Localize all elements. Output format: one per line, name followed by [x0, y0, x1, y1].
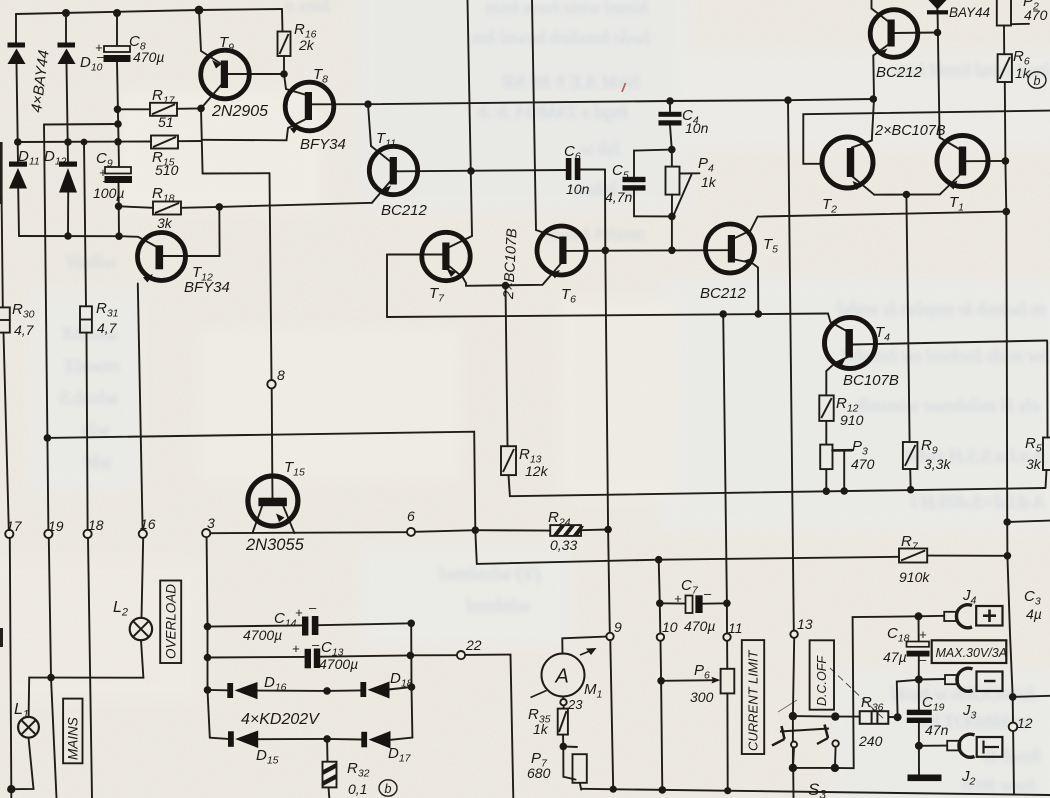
svg-text:–: –: [308, 600, 317, 615]
svg-text:+: +: [292, 641, 300, 656]
svg-text:BFY34: BFY34: [300, 136, 346, 153]
svg-text:10: 10: [662, 619, 678, 635]
svg-text:lngd s TAMOA .b .b: lngd s TAMOA .b .b: [478, 102, 628, 123]
svg-text:BC212: BC212: [700, 285, 747, 302]
svg-text:BC212: BC212: [876, 64, 923, 81]
svg-text:BC212: BC212: [381, 202, 428, 219]
svg-text:bms n: bms n: [285, 0, 330, 17]
svg-text:–: –: [311, 637, 320, 652]
svg-text:2N3055: 2N3055: [245, 536, 305, 554]
svg-text:13: 13: [797, 616, 813, 632]
svg-text:16: 16: [140, 516, 156, 532]
svg-text:10n: 10n: [685, 120, 709, 136]
svg-text:wlsnb.S: wlsnb.S: [59, 388, 118, 409]
svg-text:wlbsH: wlbsH: [66, 252, 116, 273]
svg-text:4,7n: 4,7n: [605, 189, 632, 205]
svg-text:10n: 10n: [566, 181, 590, 197]
svg-text:12: 12: [1017, 715, 1033, 731]
svg-text:1k: 1k: [701, 174, 717, 190]
svg-text:0,33: 0,33: [550, 537, 577, 553]
svg-text:–: –: [96, 49, 105, 64]
svg-text:240: 240: [858, 733, 883, 749]
svg-text:CURRENT LIMIT: CURRENT LIMIT: [746, 650, 761, 751]
svg-text:0,1: 0,1: [348, 781, 367, 797]
svg-text:19: 19: [48, 518, 64, 534]
svg-text:8: 8: [277, 367, 285, 383]
svg-text:510: 510: [155, 162, 179, 178]
svg-text:m lwinsb le smplsn ls wnbd: m lwinsb le smplsn ls wnbd: [837, 299, 1045, 320]
svg-text:BC107B: BC107B: [843, 372, 899, 389]
svg-text:18: 18: [88, 517, 104, 533]
svg-text:2k: 2k: [298, 37, 315, 53]
svg-text:2N2905: 2N2905: [211, 103, 268, 120]
svg-text:910k: 910k: [899, 569, 930, 585]
svg-text:470: 470: [851, 456, 875, 472]
svg-text:–: –: [102, 173, 111, 188]
svg-text:11: 11: [728, 620, 743, 636]
svg-text:–: –: [918, 652, 927, 667]
svg-text:3: 3: [207, 515, 215, 531]
svg-text:23: 23: [567, 697, 583, 712]
svg-text:470µ: 470µ: [133, 49, 164, 65]
svg-text:300: 300: [690, 689, 714, 705]
svg-text:47n: 47n: [925, 722, 949, 738]
svg-text:D.C.OFF: D.C.OFF: [815, 655, 829, 706]
svg-text:wlnbmsl: wlnbmsl: [467, 596, 530, 617]
svg-text:A d.l.d=S.d0S.H l: A d.l.d=S.d0S.H l: [911, 492, 1047, 513]
svg-text:3k: 3k: [1026, 456, 1042, 472]
svg-text:3k: 3k: [157, 215, 173, 231]
svg-text:A: A: [555, 666, 569, 688]
svg-text:(V) wlsnbnwl: (V) wlsnbnwl: [439, 564, 540, 585]
svg-text:470: 470: [1024, 7, 1048, 23]
svg-text:4×KD202V: 4×KD202V: [241, 711, 320, 728]
svg-text:+: +: [919, 627, 927, 642]
svg-text:51: 51: [158, 114, 174, 130]
svg-text:4,7: 4,7: [97, 320, 118, 336]
svg-text:b: b: [385, 782, 392, 796]
svg-text:47µ: 47µ: [883, 649, 907, 665]
svg-text:6: 6: [407, 508, 415, 524]
svg-text:470µ: 470µ: [684, 618, 715, 634]
svg-text:BFY34: BFY34: [184, 279, 230, 296]
svg-text:+: +: [674, 591, 682, 606]
svg-text:BAY44: BAY44: [949, 5, 990, 20]
svg-text:lwde hmslieb bewnl hm: lwde hmslieb bewnl hm: [472, 28, 650, 49]
svg-text:4,7: 4,7: [14, 322, 35, 338]
svg-text:1k: 1k: [533, 721, 549, 737]
svg-text:910: 910: [840, 412, 864, 428]
svg-text:himnl wnie ivem bnm: himnl wnie ivem bnm: [486, 0, 648, 19]
svg-text:680: 680: [527, 765, 551, 781]
svg-text:OVERLOAD: OVERLOAD: [164, 584, 179, 659]
svg-text:–: –: [703, 586, 712, 601]
svg-text:9: 9: [614, 619, 622, 635]
svg-text:MAINS: MAINS: [66, 717, 81, 760]
svg-text:b: b: [1034, 74, 1041, 88]
svg-text:lsnM A.E h 88 NR: lsnM A.E h 88 NR: [502, 72, 640, 93]
svg-text:lsb w: lsb w: [580, 139, 620, 160]
svg-text:3,3k: 3,3k: [924, 456, 951, 472]
svg-text:4700µ: 4700µ: [319, 656, 358, 672]
svg-text:22: 22: [465, 637, 482, 653]
svg-text:4700µ: 4700µ: [243, 627, 282, 643]
svg-text:2×BC107B: 2×BC107B: [874, 123, 946, 139]
svg-text:MAX.30V/3A: MAX.30V/3A: [936, 646, 1008, 660]
svg-text:17: 17: [6, 518, 23, 534]
svg-text:nswnlX: nswnlX: [63, 356, 120, 377]
svg-text:12k: 12k: [525, 463, 549, 479]
svg-text:els H milsbnwe wimsnlb: els H milsbnwe wimsnlb: [856, 396, 1040, 417]
svg-text:+: +: [295, 605, 303, 620]
svg-text:wbl: wbl: [85, 452, 112, 473]
svg-text:4µ: 4µ: [1026, 606, 1042, 622]
